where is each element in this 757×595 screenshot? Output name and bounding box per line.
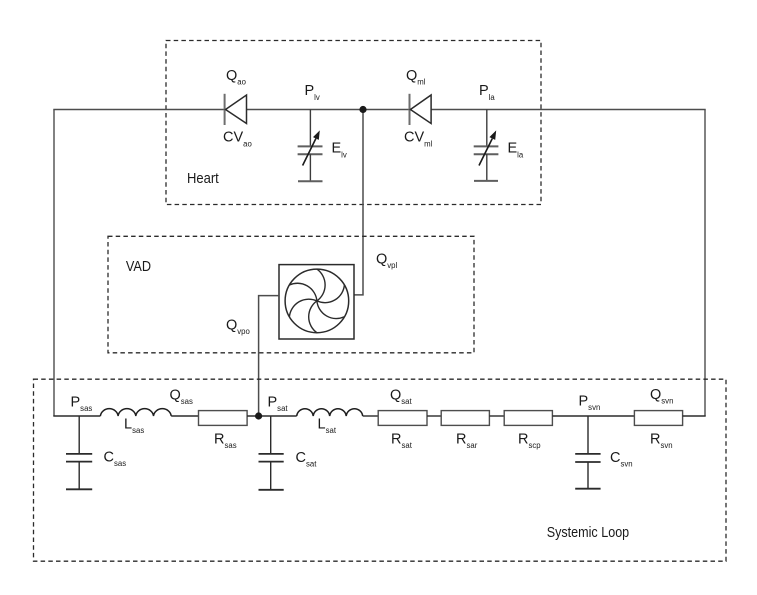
resistor R_sat — [378, 411, 427, 426]
heart dashed box — [166, 41, 541, 205]
capacitor C_svn — [575, 416, 600, 489]
wire heart top-left segment — [53, 109, 225, 111]
wire R_scp to R_svn — [552, 415, 634, 417]
resistor R_svn — [634, 411, 682, 426]
wire outer loop right vertical — [704, 110, 706, 417]
capacitor E_lv (variable) — [298, 110, 323, 182]
resistor R_sar — [441, 411, 489, 426]
wire R_svn to outer right — [683, 415, 706, 417]
pump U1 (VAD fan) — [279, 265, 354, 339]
svg-text:VAD: VAD — [126, 259, 151, 275]
svg-text:Systemic Loop: Systemic Loop — [547, 525, 630, 541]
capacitor C_sat — [259, 416, 284, 490]
wire L_sat to R_sat — [363, 415, 379, 417]
wire R_sas to node P_sat — [247, 415, 297, 417]
wire outer loop left vertical — [53, 110, 55, 417]
wire R_sar to R_scp — [489, 415, 504, 417]
wire R_sat to R_sar — [427, 415, 441, 417]
wire L_sas to R_sas — [171, 415, 198, 417]
wire heart right segment — [431, 109, 706, 111]
wire heart mid segment — [247, 109, 411, 111]
resistor R_scp — [504, 411, 552, 426]
node heart junction — [359, 106, 366, 113]
wire VAD to systemic junction — [259, 296, 279, 416]
wire heart junction to VAD — [354, 113, 363, 295]
VAD dashed box — [108, 236, 474, 352]
diode Q_ml — [410, 94, 432, 125]
node P_sat — [255, 412, 262, 419]
svg-text:Heart: Heart — [187, 171, 219, 187]
resistor R_sas — [199, 411, 248, 426]
capacitor C_sas — [66, 416, 92, 489]
systemic dashed box — [34, 379, 727, 561]
inductor L_sas — [100, 409, 171, 416]
wire systemic left segment — [53, 415, 100, 417]
inductor L_sat — [297, 409, 363, 416]
capacitor E_la (variable) — [474, 110, 499, 181]
diode Q_ao — [225, 94, 247, 125]
